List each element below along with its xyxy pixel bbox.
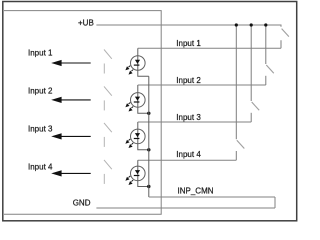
switch S4 (internal, left) — [104, 160, 112, 184]
svg-text:Input 2: Input 2 — [176, 76, 201, 85]
wire LED D2 return — [138, 107, 149, 113]
wire Input 4 line — [138, 159, 237, 161]
junction dot +UB / contact 2 — [264, 23, 267, 26]
switch external contact 3 — [251, 25, 259, 122]
wire LED D1 top connection — [137, 48, 139, 55]
svg-text:+UB: +UB — [78, 18, 94, 27]
switch external contact 2 — [266, 25, 274, 85]
signal arrow Input 2 — [51, 97, 90, 103]
svg-text:Input 1: Input 1 — [176, 39, 201, 48]
switch S3 (internal, left) — [104, 123, 112, 147]
svg-text:INP_CMN: INP_CMN — [178, 186, 214, 195]
wire LED D1 return — [138, 70, 149, 76]
svg-text:GND: GND — [73, 198, 91, 207]
wire Input 2 line — [138, 84, 266, 86]
external common loop right edge — [274, 197, 276, 208]
LED D1 — [125, 56, 145, 75]
signal arrow Input 3 — [51, 133, 90, 139]
LED D2 — [125, 93, 145, 112]
switch S2 (internal, left) — [104, 86, 112, 110]
junction dot +UB / contact 3 — [250, 23, 253, 26]
wire Input 3 line — [138, 121, 251, 123]
switch S1 (internal, left) — [104, 50, 112, 74]
wire LED D2 top connection — [137, 85, 139, 93]
wire LED D4 top connection — [137, 160, 139, 166]
LED D3 — [125, 129, 145, 148]
svg-text:Input 3: Input 3 — [28, 125, 53, 134]
junction dot row 4 — [147, 185, 150, 188]
wire Input 1 line — [138, 47, 281, 49]
svg-text:Input 1: Input 1 — [28, 49, 53, 58]
GND wire — [96, 207, 275, 209]
+UB rail wire — [96, 25, 281, 27]
signal arrow Input 4 — [51, 170, 90, 176]
wire LED D4 return — [138, 181, 149, 187]
signal arrow Input 1 — [51, 60, 90, 66]
junction dot row 2 — [147, 112, 150, 115]
junction dot +UB / contact 4 — [235, 23, 238, 26]
device box — [4, 11, 161, 215]
common return vertical wire — [148, 76, 150, 197]
svg-text:Input 4: Input 4 — [176, 150, 201, 159]
wire LED D3 return — [138, 144, 149, 150]
svg-text:Input 2: Input 2 — [28, 87, 53, 96]
switch external contact 4 — [236, 25, 244, 160]
wire LED D3 top connection — [137, 122, 139, 129]
INP_CMN wire — [149, 196, 275, 198]
switch external contact 1 — [281, 29, 289, 49]
svg-text:Input 4: Input 4 — [28, 162, 53, 171]
svg-text:Input 3: Input 3 — [176, 113, 201, 122]
LED D4 — [125, 166, 145, 185]
junction dot row 3 — [147, 148, 150, 151]
